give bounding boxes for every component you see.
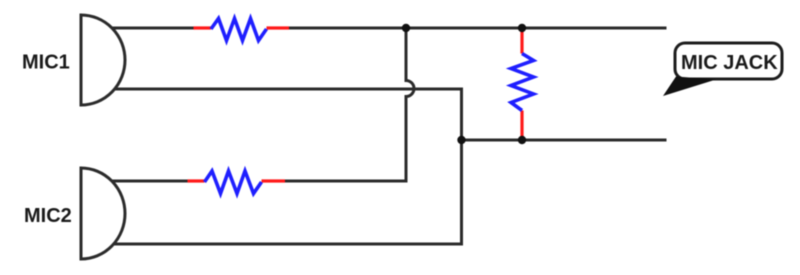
svg-text:MIC JACK: MIC JACK: [681, 52, 778, 74]
svg-text:MIC2: MIC2: [24, 205, 72, 227]
svg-text:MIC1: MIC1: [22, 51, 70, 73]
